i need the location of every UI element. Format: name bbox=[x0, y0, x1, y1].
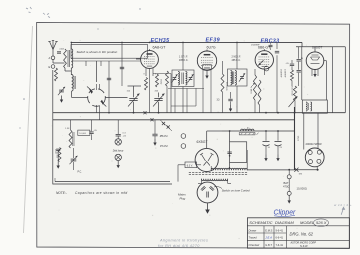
wire far right rail bbox=[344, 47, 346, 113]
svg-text:500,000Ω: 500,000Ω bbox=[290, 86, 292, 96]
wire antenna to coil bbox=[53, 49, 65, 64]
svg-text:EF39: EF39 bbox=[206, 38, 220, 44]
terminal BAT- bbox=[287, 179, 291, 196]
wire L2 to switch bbox=[72, 91, 88, 98]
capacitor C7 bbox=[217, 92, 233, 112]
capacitor C2 trimmer bbox=[58, 87, 65, 95]
pencil note bottom bbox=[158, 239, 208, 248]
speaker plug J1 bbox=[305, 148, 324, 167]
svg-text:1.3K: 1.3K bbox=[65, 128, 70, 130]
svg-text:Alignment in Kilohycles: Alignment in Kilohycles bbox=[159, 239, 208, 243]
label 0.3 bbox=[123, 133, 127, 135]
wire gang1 top bbox=[128, 86, 142, 93]
label EBC33 (blue) bbox=[261, 39, 280, 45]
svg-text:ECH35: ECH35 bbox=[151, 38, 171, 44]
label 100MMF vert bbox=[283, 69, 285, 78]
dial lamp LP2 bbox=[115, 154, 121, 160]
svg-text:10,000Ω: 10,000Ω bbox=[170, 79, 172, 88]
svg-text:Switch is shown in DC position: Switch is shown in DC position bbox=[77, 50, 118, 54]
label 50000ohm bbox=[225, 82, 227, 91]
svg-text:P.C.: P.C. bbox=[78, 171, 83, 174]
svg-text:250MMF: 250MMF bbox=[280, 69, 282, 78]
chassis boundary wire (inner border) bbox=[53, 70, 172, 184]
svg-text:G.B.T: G.B.T bbox=[265, 243, 272, 247]
resistor R3 bbox=[156, 74, 159, 87]
valve V4 6V6-GT bbox=[306, 45, 324, 69]
aerial coil T1 core bbox=[68, 50, 69, 67]
wire V4 screen bbox=[324, 61, 327, 100]
svg-text:6V6GT: 6V6GT bbox=[312, 45, 322, 49]
wire heater line bbox=[55, 165, 185, 182]
terminal BAT+ bbox=[287, 169, 291, 179]
svg-text:ASTOR MICRO CORP: ASTOR MICRO CORP bbox=[290, 242, 317, 245]
aerial coil T1 primary bbox=[64, 49, 67, 68]
mains plug P1 bbox=[197, 182, 218, 203]
capacitor C10b bbox=[297, 71, 301, 86]
terminal Ph.P2 bbox=[160, 144, 186, 149]
capacitor C15 padder PC bbox=[70, 148, 83, 174]
label 350ohm bbox=[160, 79, 162, 85]
label mains plug bbox=[178, 193, 186, 201]
svg-text:Checked: Checked bbox=[249, 243, 260, 247]
svg-text:Traced: Traced bbox=[249, 236, 258, 240]
valve V2 6U7G bbox=[197, 46, 216, 71]
valve V3 6B6-GT bbox=[255, 46, 273, 70]
svg-text:Ph.P2.: Ph.P2. bbox=[160, 144, 169, 148]
row traced bbox=[249, 236, 284, 240]
oscillator padder coil L3 bbox=[69, 120, 74, 148]
svg-text:9-6-41: 9-6-41 bbox=[276, 228, 284, 232]
label 465 bbox=[155, 91, 159, 93]
wire rect to transformer bbox=[197, 164, 201, 166]
capacitor C14 bbox=[89, 120, 93, 140]
wire OPT to speaker bbox=[304, 113, 318, 149]
note capacitors bbox=[56, 191, 128, 195]
capacitor block box bbox=[227, 142, 246, 163]
svg-text:6U7G: 6U7G bbox=[207, 46, 216, 50]
svg-text:6B6-GT: 6B6-GT bbox=[258, 46, 271, 50]
T5 secondary leads bbox=[211, 150, 247, 170]
resistor R4 bbox=[166, 71, 169, 113]
label 500000ohm bbox=[290, 86, 292, 96]
filter choke L5 bbox=[239, 128, 258, 135]
svg-text:A: A bbox=[49, 56, 51, 60]
wire IFT1 top bbox=[182, 42, 184, 70]
resistor R12 6.3v bbox=[185, 162, 197, 168]
antenna bbox=[48, 41, 57, 57]
wire under V2 b bbox=[171, 88, 196, 106]
svg-text:2 MEG: 2 MEG bbox=[250, 87, 252, 94]
band-change switch SW1 bbox=[87, 84, 106, 120]
svg-text:2000Ω SPKR: 2000Ω SPKR bbox=[306, 142, 322, 146]
wire IFT1 to bus bbox=[182, 87, 184, 113]
svg-text:Dial lamp: Dial lamp bbox=[113, 149, 124, 152]
svg-text:6.3 V.: 6.3 V. bbox=[187, 164, 193, 167]
terminal Ph.P1 bbox=[160, 134, 186, 139]
capacitor C1 aerial series bbox=[57, 52, 61, 53]
label dial lamp bbox=[113, 149, 124, 152]
resistor R14 bbox=[55, 148, 61, 162]
svg-text:MS: MS bbox=[299, 174, 303, 176]
svg-text:526 X: 526 X bbox=[316, 220, 327, 225]
wire V4 plate bbox=[301, 47, 303, 100]
label BAT bbox=[283, 181, 307, 191]
ground below BAT bbox=[288, 195, 291, 203]
wire coil bottom bbox=[65, 68, 71, 75]
svg-text:250MMF: 250MMF bbox=[251, 45, 260, 47]
row drawn bbox=[249, 228, 284, 232]
svg-text:.0001: .0001 bbox=[59, 49, 65, 51]
capacitor C9 bbox=[286, 60, 295, 70]
wire under V2 a bbox=[168, 88, 204, 112]
oscillator coil L2 bbox=[72, 75, 76, 92]
capacitor C10 bbox=[297, 47, 304, 70]
svg-text:7-6-41: 7-6-41 bbox=[276, 243, 284, 247]
svg-text:for RH dial 4/6 4270: for RH dial 4/6 4270 bbox=[158, 244, 200, 248]
wire gang2 to bus bbox=[158, 108, 160, 114]
svg-text:6A8-GT: 6A8-GT bbox=[153, 45, 167, 49]
svg-text:SCHEMATIC: SCHEMATIC bbox=[249, 220, 272, 225]
terminal A bbox=[49, 56, 55, 60]
svg-text:BAT: BAT bbox=[284, 181, 289, 185]
svg-text:350Ω: 350Ω bbox=[160, 79, 162, 85]
ground below C2 bbox=[60, 96, 63, 103]
capacitor C8 tophat bbox=[269, 42, 273, 50]
svg-text:270Ω: 270Ω bbox=[298, 135, 300, 141]
valve V5 6X5-GT rectifier bbox=[195, 140, 218, 171]
capacitor C6 bbox=[120, 42, 124, 86]
wire: AVC bus bbox=[53, 112, 346, 114]
svg-text:EBC33: EBC33 bbox=[261, 39, 280, 45]
label 270ohm bbox=[298, 135, 300, 141]
aerial coil T1 secondary bbox=[71, 49, 73, 68]
svg-text:E.M.S: E.M.S bbox=[265, 228, 272, 232]
label 1st IF bbox=[179, 56, 189, 62]
label 2nd IF bbox=[232, 56, 242, 62]
svg-text:MODEL: MODEL bbox=[300, 220, 314, 225]
svg-text:50,000Ω: 50,000Ω bbox=[225, 82, 227, 91]
wire IFT2 top bbox=[236, 42, 238, 69]
wire: B+ filter line bbox=[222, 130, 292, 132]
wire coil top to rail bbox=[70, 42, 72, 49]
IF transformer T3 box bbox=[228, 69, 248, 86]
electrolytic C13 bbox=[275, 130, 283, 161]
pencil arrow to title bbox=[334, 203, 352, 215]
resistor R2 bbox=[145, 78, 148, 91]
svg-text:3Ω: 3Ω bbox=[217, 100, 220, 102]
label EF39 (blue) bbox=[206, 38, 220, 44]
label speaker bbox=[306, 142, 322, 146]
stray pencil marks top-left margin bbox=[19, 7, 140, 129]
svg-text:Plug: Plug bbox=[180, 197, 186, 201]
svg-text:E: E bbox=[49, 65, 51, 69]
wire: ground bus bbox=[53, 119, 295, 121]
svg-text:10,000Ω: 10,000Ω bbox=[297, 187, 307, 191]
label 10000ohm bbox=[170, 79, 172, 88]
variable capacitor C4 oscillator bbox=[153, 93, 165, 108]
svg-text:Switch on tone Control: Switch on tone Control bbox=[222, 189, 251, 193]
wire IFT2 bottom bbox=[236, 86, 238, 113]
label 250MMF vert bbox=[280, 69, 282, 78]
svg-text:465 K.C.: 465 K.C. bbox=[232, 59, 242, 62]
resistor R1 bbox=[55, 68, 58, 81]
label 1.3K bbox=[65, 128, 70, 130]
drg number bbox=[290, 231, 314, 236]
wire V1 to bus bbox=[136, 59, 171, 113]
ground below mains plug bbox=[205, 203, 210, 214]
wire V3 coupling bbox=[276, 42, 278, 112]
wire choke to caps bbox=[247, 107, 318, 170]
variable capacitor C3 tuning bbox=[128, 93, 140, 108]
resistor R5 bbox=[170, 87, 172, 113]
ground below LP2 bbox=[117, 161, 120, 169]
tone control R15 bbox=[289, 86, 298, 113]
IF transformer T3 trimmer bbox=[239, 73, 245, 81]
svg-text:J.E.A: J.E.A bbox=[265, 236, 272, 240]
note switch on tone control bbox=[214, 187, 250, 193]
capacitor C16 bbox=[54, 149, 60, 169]
T5 primary leads bbox=[198, 179, 231, 184]
row checked bbox=[249, 243, 284, 247]
label Clipper (blue) bbox=[274, 209, 297, 216]
wire V3 down bbox=[263, 69, 265, 75]
label 250mmf bbox=[251, 45, 260, 47]
IF transformer T2 windings bbox=[178, 72, 187, 86]
svg-text:Capacitors are shown in mf: Capacitors are shown in mfd bbox=[75, 191, 128, 195]
wire choke to transformer bbox=[229, 130, 231, 168]
wire: top HT rail bbox=[71, 42, 345, 46]
ground below V2 bbox=[205, 70, 208, 78]
IF transformer T3 windings bbox=[231, 71, 237, 85]
capacitor C5 bbox=[107, 61, 111, 113]
wire switch up bbox=[96, 61, 98, 82]
wire rectifier top bbox=[207, 131, 222, 148]
note: switch position bbox=[71, 45, 148, 59]
title text bbox=[249, 220, 326, 225]
svg-text:6-6-41: 6-6-41 bbox=[276, 236, 284, 240]
svg-text:100MMF: 100MMF bbox=[283, 69, 285, 78]
dial lamp LP1 bbox=[115, 136, 121, 145]
pencil ellipse around 526X bbox=[314, 219, 329, 227]
wire screen rail bbox=[335, 47, 337, 60]
svg-text:DIAGRAM: DIAGRAM bbox=[275, 220, 294, 225]
svg-text:N.S.W.: N.S.W. bbox=[300, 244, 308, 248]
label ECH35 (blue) bbox=[151, 38, 171, 44]
power transformer T5 HT secondary bbox=[211, 168, 247, 170]
IF transformer T2 box bbox=[172, 70, 194, 87]
resistor R6 bbox=[221, 61, 224, 113]
V3 grid circle bbox=[264, 66, 269, 71]
resistor R9 bbox=[291, 70, 294, 86]
capacitor C17 dial bbox=[116, 120, 127, 138]
wire B+ right rail bbox=[332, 47, 334, 113]
label 100MMF gang bbox=[127, 91, 131, 93]
svg-text:10,000: 10,000 bbox=[79, 133, 86, 135]
capacitor C18 bbox=[152, 120, 163, 146]
V1 pins bbox=[144, 68, 158, 76]
wire switch to gang bbox=[105, 97, 127, 99]
svg-text:Drawn: Drawn bbox=[249, 228, 257, 232]
resistor R8 bbox=[258, 80, 261, 113]
power transformer T5 core bbox=[189, 173, 248, 175]
label 2meg bbox=[250, 87, 252, 94]
svg-text:465 K.C.: 465 K.C. bbox=[179, 59, 189, 62]
electrolytic C12 bbox=[263, 130, 271, 161]
junction marks on bus bbox=[71, 42, 296, 131]
valve V1 6A8-GT bbox=[141, 45, 167, 68]
wire speaker to BAT line bbox=[317, 167, 319, 171]
switch X mains bbox=[294, 168, 302, 176]
V2 grid box bbox=[203, 65, 212, 69]
terminal E bbox=[49, 65, 55, 69]
output transformer T4 bbox=[302, 100, 327, 113]
resistor R13 box bbox=[78, 130, 90, 135]
svg-text:470Ω: 470Ω bbox=[283, 185, 290, 189]
svg-text:DRG. No. 62: DRG. No. 62 bbox=[290, 231, 314, 236]
wire gang1 to bus bbox=[133, 108, 135, 114]
IF transformer T2 trimmers bbox=[172, 74, 194, 82]
svg-text:w 14 | 4 +: w 14 | 4 + bbox=[334, 203, 352, 207]
wire V2 down bbox=[203, 70, 211, 113]
astor text bbox=[290, 242, 317, 249]
power transformer T5 primary bbox=[202, 179, 228, 181]
V4 pins bbox=[312, 69, 318, 77]
svg-text:NOTE:-: NOTE:- bbox=[56, 191, 67, 195]
label -05 osc bbox=[94, 130, 98, 132]
svg-text:Clipper: Clipper bbox=[274, 209, 297, 216]
wire under note bbox=[72, 61, 141, 66]
volume control R7 bbox=[251, 69, 257, 113]
capacitor C8b bbox=[275, 51, 279, 53]
title block frame bbox=[247, 218, 349, 248]
